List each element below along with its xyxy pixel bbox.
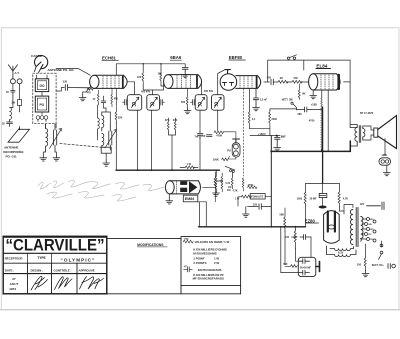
capacitor 120 tone (253, 204, 258, 207)
resistor 140 (294, 227, 296, 249)
capacitor 8MF electrolytic (275, 136, 281, 145)
ground blob 20MF (319, 206, 327, 209)
ground under gang1 coil (40, 155, 47, 161)
svg-text:2200: 2200 (271, 118, 277, 121)
label ANTENNE INCORPOREE PO GO (3, 145, 23, 158)
svg-text:1M: 1M (227, 189, 230, 192)
svg-text:“OLYMPIC”: “OLYMPIC” (61, 258, 96, 263)
power transformer secondary winding (361, 217, 363, 242)
svg-text:PO: PO (40, 103, 45, 107)
svg-text:120: 120 (360, 203, 365, 206)
IF2 can A (195, 95, 207, 111)
svg-text:ANTENNE PO. GO.: ANTENNE PO. GO. (48, 68, 75, 72)
header APPROUVE (79, 268, 95, 273)
coil loops below PO box (36, 116, 40, 120)
svg-text:1 W: 1 W (187, 163, 192, 166)
oscillator coil 1 (102, 112, 104, 131)
resistor 22K osc (115, 88, 117, 123)
wires EL84 cathode/screen down (322, 90, 328, 151)
oscillator trimmer arrow (105, 130, 117, 149)
junction dots bottom bus (270, 226, 272, 228)
junction dots on chassis bus (137, 169, 139, 171)
resistor 10K (160, 71, 162, 84)
tube V6 cathode loop (328, 225, 335, 229)
svg-text:VALEURS EN OHMS ½ W: VALEURS EN OHMS ½ W (195, 240, 230, 244)
wire speaker to HPS (384, 139, 386, 156)
resistor 0,1 screen (248, 111, 250, 127)
capacitor 7nF (198, 132, 204, 139)
dashed tuning gang link (60, 144, 104, 148)
svg-text:M EN MEGOHMS: M EN MEGOHMS (193, 252, 216, 256)
modifications box (107, 239, 181, 294)
svg-text:470K: 470K (217, 180, 223, 183)
speaker cone (378, 116, 397, 149)
tube V3 EBF80 top cap (225, 70, 230, 74)
+162V rail (250, 88, 297, 135)
capacitor 7nF PU (207, 135, 213, 137)
tube V1 cathode wire + ground (83, 87, 91, 95)
header DATE (5, 269, 14, 273)
wire tone to rail (238, 196, 271, 206)
wire IF2 to EBF80 grid cap (218, 70, 225, 95)
legend resistor symbol (183, 240, 193, 243)
legend box frame (181, 237, 241, 294)
svg-text:50×50 MF: 50×50 MF (300, 267, 311, 270)
svg-text:+162V: +162V (258, 132, 266, 136)
resistor 47K oscillator anode (111, 88, 113, 106)
resistor 470 cathode (87, 88, 94, 91)
svg-text:CONTRÔLE :: CONTRÔLE : (54, 268, 72, 273)
svg-text:100: 100 (137, 76, 142, 79)
ground 8MF (274, 145, 281, 151)
junction dot 8MF (276, 135, 278, 137)
resistor 56K (284, 208, 286, 232)
capacitor 20MF electrolytic (319, 193, 327, 197)
output transformer primary (355, 125, 357, 145)
antenna A.T. mast (8, 65, 17, 79)
legend capacitor symbol (184, 267, 193, 272)
svg-text:+185: +185 (311, 103, 318, 107)
speaker driver (374, 128, 378, 137)
output transformer core (359, 126, 360, 143)
label TYPE (37, 256, 45, 260)
svg-text:1,5 nF: 1,5 nF (260, 98, 268, 101)
fuse on top bus (287, 57, 289, 59)
coil PO box (35, 96, 48, 112)
svg-text:8MF: 8MF (281, 136, 286, 139)
label 455 KC IF2 (204, 89, 214, 93)
svg-text:27K: 27K (165, 119, 170, 122)
handwritten pencil annotation (38, 180, 164, 201)
svg-text:120: 120 (253, 204, 258, 207)
wires IF1 down to bus (138, 110, 152, 170)
B+ top bus (268, 60, 350, 127)
label SECT 50 (372, 264, 384, 267)
IF1 can A (127, 95, 141, 111)
svg-text:750: 750 (184, 238, 189, 241)
underline below brand (3, 252, 107, 254)
svg-text:BT 17-4870: BT 17-4870 (360, 112, 374, 115)
legend line 8 (193, 277, 224, 281)
ground EL84 grid return (312, 90, 314, 93)
vertical rail from +162V (270, 136, 272, 227)
svg-text:6,3V: 6,3V (338, 250, 344, 254)
tube V3 plate bar (256, 77, 258, 88)
output transformer secondary (363, 126, 368, 140)
tube V1 below components: resistor 47 (97, 90, 99, 105)
resistor 560 cathode 6BA6 (186, 88, 188, 107)
volume labels 0,02 1M 4,7K (226, 182, 238, 192)
legend line 1 (195, 240, 230, 244)
antenna socket circles (10, 79, 15, 84)
wire EBF80 plate to coupling (264, 81, 270, 83)
svg-text:GO: GO (40, 84, 45, 88)
tube V3 EBF80 envelope (220, 74, 237, 91)
chassis bus mid left (116, 169, 220, 171)
tuning gang 1 coil (46, 124, 48, 152)
resistor 100K PU (222, 156, 236, 160)
wire transformer top from plate (350, 125, 357, 128)
capacitor 1,5nF plate bypass (253, 88, 258, 104)
resistor 4,7K (338, 192, 340, 207)
mains plug (388, 264, 395, 269)
label EZ80 (305, 218, 316, 223)
wires IF2 down (200, 110, 218, 170)
IF1 can B side capacitor (161, 100, 165, 106)
B+ filter top rail (306, 183, 340, 192)
label +185 (311, 103, 318, 107)
svg-text:A.T.: A.T. (15, 71, 20, 75)
wire cadre to grid cap (56, 88, 64, 92)
row3 cell verticals (28, 263, 78, 294)
tube V4 plate bar (337, 75, 340, 89)
ground AVC cap (182, 72, 189, 78)
AVC loop top wire (116, 64, 185, 75)
svg-text:47K: 47K (293, 77, 298, 80)
svg-text:7nF: 7nF (195, 136, 200, 139)
tube V4 EL84 envelope (309, 74, 318, 90)
wire transformer primary top (344, 205, 353, 212)
dashed coil box (33, 73, 56, 124)
tube V5 EM84 envelope (165, 181, 174, 194)
resistor 2M on antenna lead (18, 100, 22, 106)
svg-text:AOUT: AOUT (10, 282, 19, 286)
oscillator trimmer capacitor (109, 125, 112, 150)
IF1 can A side capacitor (123, 100, 127, 106)
svg-text:4,7K: 4,7K (233, 189, 238, 192)
svg-text:100K: 100K (213, 159, 219, 162)
wire antenna down (13, 84, 20, 91)
svg-text:EM84: EM84 (185, 197, 194, 201)
legend line 5 (193, 261, 219, 265)
wires EM84 to ground bus (198, 202, 207, 227)
mains switch (380, 244, 383, 247)
svg-text:120: 120 (63, 80, 68, 84)
model name OLYMPIC (61, 258, 96, 263)
svg-text:500: 500 (267, 76, 272, 79)
svg-text:4700: 4700 (309, 119, 315, 122)
wire 6BA6 plate to IF2 (201, 82, 203, 95)
ground PS (362, 271, 369, 277)
tube V5 beam triangle (filled) (189, 181, 197, 193)
ground under gang1 cap (53, 155, 60, 161)
scan page edge bottom (0, 309, 400, 310)
resistor 1W feed (180, 166, 198, 169)
wires inside coil box (37, 75, 48, 115)
tube V1 plate bar (122, 77, 124, 88)
svg-text:47K: 47K (114, 98, 119, 101)
tube V3 diode plates inside (223, 83, 234, 86)
wire coil box bottom to gang (46, 124, 57, 129)
tonalite box (250, 194, 265, 199)
svg-text:10K: 10K (158, 72, 163, 75)
svg-text:SECT. 50∿: SECT. 50∿ (372, 264, 384, 267)
IF1 can B (147, 95, 160, 111)
svg-text:TONALITE: TONALITE (251, 196, 263, 199)
tube V6 plates (327, 212, 329, 232)
wire osc network to bus (98, 108, 117, 170)
wire osc top (102, 108, 111, 125)
label 455 KC IF1 (141, 89, 151, 93)
svg-text:6BA6: 6BA6 (170, 55, 182, 60)
svg-text:DATE :: DATE : (5, 269, 14, 273)
trimmer arrow gang1 (50, 129, 62, 149)
oscillator padder box (101, 147, 111, 153)
svg-text:RÉCEPTEUR: RÉCEPTEUR (5, 255, 24, 260)
svg-text:22K: 22K (118, 116, 123, 119)
svg-text:PU: PU (227, 149, 231, 153)
svg-text:1000: 1000 (297, 197, 303, 200)
resistor 470K horizontal (214, 131, 236, 139)
label MODIFICATIONS (137, 243, 164, 247)
wire antenna coil to grid1 (56, 69, 90, 76)
wires secondary to speaker (368, 126, 374, 140)
resistor 47K horizontal (292, 80, 309, 83)
resistor 150 PS (364, 244, 366, 271)
resistor 100 screen (142, 71, 144, 84)
label 6BA6 (170, 55, 182, 60)
svg-text:EZ80: EZ80 (305, 218, 316, 223)
svg-text:EL84: EL84 (316, 63, 327, 68)
svg-text:27: 27 (12, 277, 16, 281)
legend line 6 (198, 268, 222, 272)
svg-text:560: 560 (181, 101, 186, 104)
transformer tap wires + circles (362, 219, 367, 239)
svg-text:1 W: 1 W (235, 197, 240, 200)
can capacitor bottom (298, 270, 309, 275)
resistor 2K horizontal (278, 80, 292, 83)
svg-text:2K: 2K (280, 77, 283, 80)
tube V4 grids (dashed) (321, 75, 333, 89)
pot divider resistor A (215, 170, 217, 192)
tube V5 grid dashes (176, 182, 178, 194)
scan page edge top (1, 27, 399, 28)
pot divider resistor B (221, 173, 223, 192)
resistor 1M EM84 (231, 176, 233, 189)
svg-text:EN PICOFARADS: EN PICOFARADS (198, 268, 222, 272)
svg-text:CADRE: CADRE (31, 54, 42, 58)
svg-text:1M: 1M (228, 186, 231, 189)
ground 1,5nF (253, 105, 260, 111)
capacitor 50 on antenna lead (11, 91, 15, 97)
power transformer core (356, 208, 358, 247)
svg-text:20 MF: 20 MF (310, 197, 318, 200)
resistor 8K grid leak (298, 84, 300, 100)
svg-text:DESSIN :: DESSIN : (31, 269, 44, 273)
filter can 50x50MF (298, 257, 316, 276)
wire 14MF to can (296, 237, 312, 261)
svg-text:8K: 8K (302, 93, 305, 96)
IF1 can A coil+arrow (132, 97, 139, 107)
scan page edge right (398, 27, 399, 310)
label A.T. (15, 71, 20, 75)
tube V2 grids (dashed) (177, 75, 191, 87)
label CADRE (31, 54, 42, 58)
wires EZ80 plate to transformer top (339, 211, 344, 214)
wire EM84 grid (203, 172, 233, 187)
ground EM84 (168, 194, 170, 198)
tube V2 6BA6 envelope (164, 75, 173, 89)
svg-text:455 K%: 455 K% (204, 89, 214, 93)
tube V5 target screens (filled) (180, 181, 187, 185)
tap labels (368, 219, 374, 241)
label 6,3V (338, 250, 344, 254)
capacitor 25 (7, 122, 13, 127)
power transformer primary winding (350, 210, 352, 245)
resistor 4700 cathode (long) (321, 98, 323, 152)
svg-text:0,02: 0,02 (226, 182, 231, 185)
oscillator coil 2 (102, 134, 104, 148)
svg-text:2 POINTS: 2 POINTS (193, 261, 206, 265)
capacitor 14MF (300, 235, 311, 240)
svg-text:4,7K: 4,7K (343, 197, 348, 200)
label BT 17-4870 (360, 112, 374, 115)
ground 6BA6 cathode (184, 108, 191, 114)
header underline (3, 273, 107, 275)
capacitor 120 mains (360, 203, 365, 206)
ground bus bottom (199, 226, 306, 228)
svg-text:150: 150 (357, 264, 362, 267)
svg-text:470: 470 (87, 91, 92, 94)
legend line 3 (193, 252, 216, 256)
IF2 can B coil+arrow (214, 97, 221, 107)
tube V1 ECH81 envelope (90, 75, 99, 88)
svg-text:7nF: 7nF (201, 135, 206, 138)
coupling coil antenne (10, 96, 13, 122)
capacitor 120 grid (65, 85, 90, 91)
wire 56K down (284, 232, 286, 265)
tube V1 grids (dashed) (103, 76, 119, 88)
oscillator coupling cap (101, 96, 106, 108)
svg-text:NETT. OM: NETT. OM (282, 100, 293, 102)
legend line 4 (193, 257, 219, 261)
label ECH81 (102, 55, 116, 60)
label EL84 (316, 63, 327, 68)
label EBF80 (229, 55, 243, 60)
can output terminal (316, 262, 320, 272)
resistor tone (241, 195, 251, 198)
signature dessin (31, 276, 48, 290)
svg-text:HPS: HPS (382, 154, 387, 157)
svg-text:2 W: 2 W (214, 261, 219, 265)
cadre loop symbol (35, 56, 48, 69)
header DESSIN (31, 269, 44, 273)
svg-text:1954: 1954 (9, 287, 16, 291)
tuning gang 1 variable capacitor (54, 124, 57, 152)
tube V2 plate bar (196, 76, 198, 87)
date text 27 AOUT 1954 (9, 277, 18, 291)
legend line 2 (193, 247, 227, 251)
ground pot network (213, 192, 220, 197)
svg-text:ANTENNE: ANTENNE (4, 145, 19, 149)
resistor 1M AVC (242, 178, 244, 191)
volume potentiometer lever (225, 166, 234, 172)
bottom line of annex boxes (3, 293, 240, 295)
svg-text:56K: 56K (280, 213, 285, 216)
svg-text:470K: 470K (216, 135, 222, 138)
title block outer box (3, 236, 107, 293)
legend line 7 (193, 273, 224, 277)
capacitor 500 coupling (271, 79, 278, 85)
resistor 470K EM84 (214, 176, 216, 202)
scan page edge left (1, 27, 2, 310)
HPS connector (382, 154, 387, 157)
svg-text:EBF80: EBF80 (229, 55, 243, 60)
svg-text:“CLARVILLE”: “CLARVILLE” (6, 237, 105, 255)
label ANTENNE PO. GO. (48, 68, 75, 72)
heater winding 2 (327, 246, 357, 257)
coil GO box (35, 79, 48, 92)
svg-text:0,1: 0,1 (252, 118, 256, 121)
tube V3 grids (dashed) (240, 76, 252, 87)
wire can to bus (281, 227, 299, 273)
label box EM84 (183, 195, 198, 202)
svg-text:470K: 470K (248, 184, 254, 187)
resistor 2200 (269, 111, 271, 127)
ground oscillator (103, 160, 110, 166)
resistors 27K pair (165, 119, 178, 122)
svg-text:TYPE: TYPE (37, 256, 45, 260)
svg-text:280: 280 (298, 113, 303, 116)
junction dot rail (270, 150, 272, 152)
heater winding 1 (330, 247, 354, 251)
oscillator grid coil small (98, 105, 100, 133)
svg-text:ECH81: ECH81 (102, 55, 116, 60)
resistor 470K grid (248, 186, 258, 189)
switch contact (291, 102, 293, 104)
ground tone (245, 207, 247, 211)
PU jack (232, 143, 240, 157)
svg-text:PO. GO.: PO. GO. (6, 154, 18, 158)
junction dot B+ (322, 150, 324, 152)
resistor 500 (285, 265, 297, 268)
capacitor 280 cathode (297, 107, 322, 112)
resistor 1000 (304, 193, 306, 207)
svg-text:MF EN MICROFARADS: MF EN MICROFARADS (193, 277, 224, 281)
ground HPS (386, 165, 388, 169)
row3 divider line (3, 262, 107, 264)
svg-text:140: 140 (285, 236, 290, 239)
signature approuve (80, 277, 104, 290)
dashed AVC line down (242, 89, 244, 177)
vertical B+ to rectifier (322, 107, 324, 183)
wire IF1 to 6BA6 grid (153, 84, 164, 95)
label 1 W tone (235, 197, 240, 200)
label NETT OM switch (282, 100, 293, 102)
B+ rail bold (271, 141, 350, 151)
IF2 can A coil+arrow (198, 97, 205, 107)
svg-text:500: 500 (283, 263, 288, 266)
